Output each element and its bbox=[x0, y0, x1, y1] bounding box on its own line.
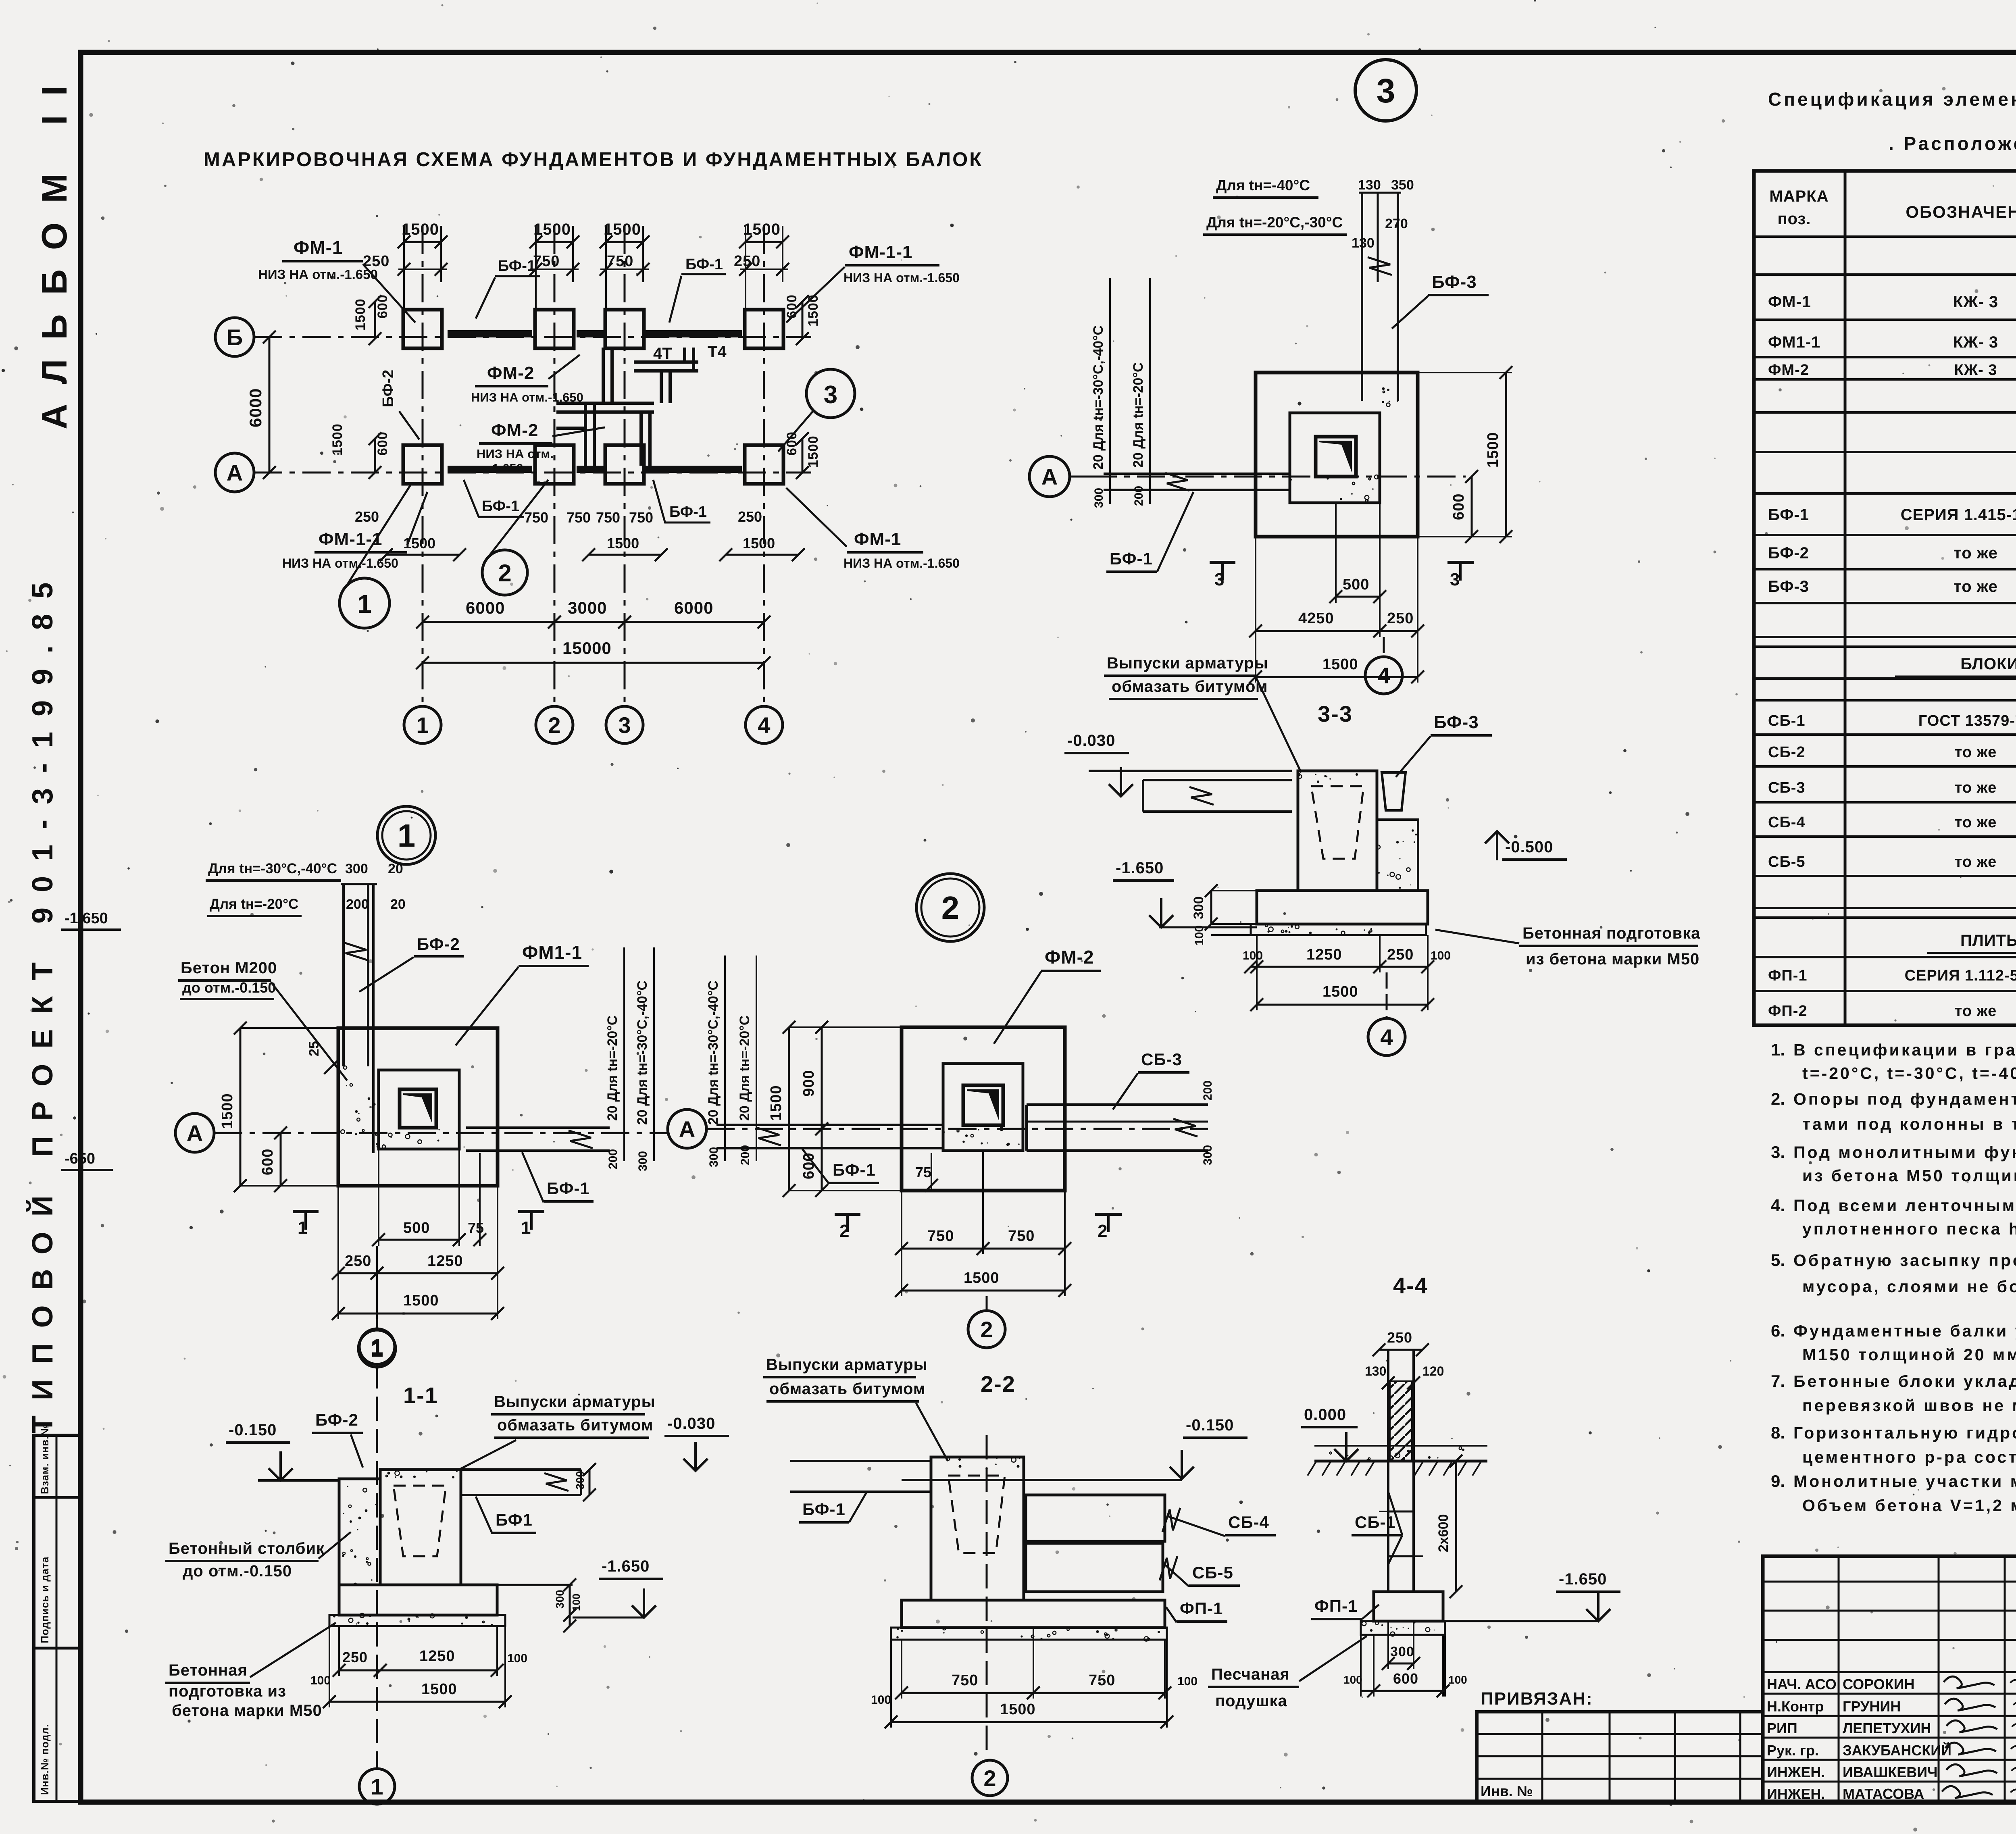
svg-text:БФ-3: БФ-3 bbox=[1434, 712, 1479, 732]
svg-text:М150 толщиной 20 мм.: М150 толщиной 20 мм. bbox=[1802, 1345, 2016, 1364]
s33 left beam bbox=[1143, 779, 1292, 781]
node3 dim 500 bbox=[1336, 596, 1380, 598]
svg-text:из бетона марки М50: из бетона марки М50 bbox=[1526, 950, 1699, 968]
svg-text:6000: 6000 bbox=[674, 598, 713, 617]
s44 bottom dims bbox=[1388, 1663, 1414, 1665]
svg-text:Подпись и дата: Подпись и дата bbox=[39, 1557, 51, 1643]
node3 dims 4250 250 bbox=[1256, 630, 1380, 632]
svg-text:1: 1 bbox=[371, 1774, 383, 1799]
svg-text:9.: 9. bbox=[1771, 1472, 1785, 1491]
s11 wall bbox=[380, 1470, 461, 1585]
svg-text:1500: 1500 bbox=[402, 221, 439, 238]
svg-text:1500: 1500 bbox=[964, 1270, 1000, 1287]
svg-text:25: 25 bbox=[306, 1041, 322, 1056]
axis circle 2 bbox=[536, 706, 573, 743]
svg-text:Бетон М200: Бетон М200 bbox=[181, 959, 277, 977]
svg-text:НИЗ НА отм.: НИЗ НА отм. bbox=[477, 447, 554, 461]
svg-text:300: 300 bbox=[1191, 896, 1206, 919]
s33 bottom dims bbox=[1251, 966, 1257, 968]
node3 dim 1500 right bbox=[1505, 373, 1507, 537]
node1 concrete speckle bbox=[355, 1110, 358, 1113]
svg-text:750: 750 bbox=[524, 509, 548, 526]
svg-text:4.: 4. bbox=[1771, 1196, 1785, 1215]
svg-text:100: 100 bbox=[871, 1693, 891, 1707]
svg-text:1500: 1500 bbox=[743, 535, 775, 552]
axis line B bbox=[254, 336, 811, 338]
s44 dim 2x600 bbox=[1455, 1461, 1457, 1592]
svg-text:2: 2 bbox=[548, 712, 560, 738]
node2 big square bbox=[902, 1027, 1065, 1191]
svg-text:ФМ-1-1: ФМ-1-1 bbox=[849, 242, 912, 262]
svg-text:БФ-1: БФ-1 bbox=[547, 1179, 590, 1198]
svg-text:БФ-1: БФ-1 bbox=[685, 256, 723, 273]
svg-text:2x600: 2x600 bbox=[1436, 1514, 1451, 1552]
svg-text:1250: 1250 bbox=[1306, 946, 1342, 963]
svg-text:20 Для tн=-20°С: 20 Для tн=-20°С bbox=[1131, 362, 1146, 468]
s33 footing bbox=[1257, 891, 1428, 924]
s22 bottom circle 2 bbox=[972, 1760, 1008, 1796]
beam BF-1 along axis A (3-4) bbox=[645, 466, 742, 473]
svg-text:БФ-1: БФ-1 bbox=[833, 1160, 876, 1179]
section mark 2T bbox=[1095, 1213, 1122, 1216]
svg-text:75: 75 bbox=[468, 1220, 484, 1236]
svg-text:НИЗ НА отм.-1.650: НИЗ НА отм.-1.650 bbox=[258, 267, 378, 282]
svg-text:. Расположенной на листе: . Расположенной на листе bbox=[1889, 133, 2016, 154]
axis line A node1 bbox=[214, 1132, 669, 1134]
svg-text:Для tн=-40°C: Для tн=-40°C bbox=[1216, 177, 1310, 194]
svg-text:ЗАКУБАНСКИЙ: ЗАКУБАНСКИЙ bbox=[1843, 1742, 1951, 1759]
svg-text:РИП: РИП bbox=[1767, 1720, 1797, 1736]
s22 left beam bbox=[790, 1460, 931, 1462]
s11 bottom circle 1 bbox=[359, 1769, 395, 1804]
svg-text:130: 130 bbox=[1358, 177, 1381, 193]
node3 dim 600 right bbox=[1471, 477, 1473, 537]
svg-text:БФ-1: БФ-1 bbox=[1768, 506, 1809, 524]
svg-text:300: 300 bbox=[554, 1590, 566, 1609]
s33 concrete column bbox=[1377, 820, 1418, 891]
svg-text:Выпуски арматуры: Выпуски арматуры bbox=[1107, 654, 1268, 672]
svg-text:ИВАШКЕВИЧ: ИВАШКЕВИЧ bbox=[1843, 1764, 1937, 1780]
svg-text:100: 100 bbox=[1243, 949, 1263, 962]
s44 wall top rect bbox=[1387, 1350, 1389, 1461]
title block small grid bbox=[1763, 1556, 2016, 1801]
svg-text:t=-20°C, t=-30°C, t=-40°C в: t=-20°C, t=-30°C, t=-40°C в килограммах. bbox=[1802, 1064, 2016, 1082]
svg-text:А: А bbox=[1041, 464, 1058, 489]
svg-text:СЕРИЯ 1.112-5 в.4: СЕРИЯ 1.112-5 в.4 bbox=[1905, 967, 2016, 984]
dim 1500 bottom axis1 bbox=[386, 554, 460, 556]
svg-text:-1.650: -1.650 bbox=[65, 910, 108, 927]
beam BF-1 along axis B (1-2) bbox=[448, 330, 532, 337]
s22 footing bbox=[902, 1600, 1165, 1628]
svg-text:то же: то же bbox=[1955, 744, 1997, 761]
svg-text:250: 250 bbox=[1387, 1329, 1412, 1346]
section mark 3T bbox=[1447, 561, 1474, 564]
svg-text:1500: 1500 bbox=[421, 1681, 457, 1698]
node2 axis line A bbox=[706, 1128, 1208, 1130]
svg-text:ФП-1: ФП-1 bbox=[1768, 967, 1808, 984]
s11 beam BF1 bbox=[461, 1468, 581, 1471]
svg-text:КЖ- 3: КЖ- 3 bbox=[1953, 333, 1998, 351]
svg-text:300: 300 bbox=[1201, 1145, 1214, 1165]
svg-text:ТИПОВОЙ ПРОЕКТ 901-3-199.85: ТИПОВОЙ ПРОЕКТ 901-3-199.85 bbox=[26, 567, 59, 1433]
svg-text:БФ-2: БФ-2 bbox=[417, 935, 460, 953]
node 1 title circle bbox=[377, 806, 435, 864]
s11 podgotovka bbox=[329, 1615, 505, 1626]
svg-text:СБ-1: СБ-1 bbox=[1768, 712, 1806, 729]
s33 dim 1500 bbox=[1257, 1004, 1428, 1006]
axis circle 3 bbox=[606, 706, 643, 743]
svg-text:ФМ-2: ФМ-2 bbox=[491, 421, 538, 440]
svg-text:250: 250 bbox=[345, 1253, 371, 1270]
svg-text:1.: 1. bbox=[1771, 1040, 1785, 1059]
svg-text:Монолитные участки между бло: Монолитные участки между блоками выполня… bbox=[1793, 1472, 2016, 1491]
svg-text:ИНЖЕН.: ИНЖЕН. bbox=[1767, 1764, 1825, 1780]
svg-text:250: 250 bbox=[355, 508, 379, 525]
dim 1500 top of axis bbox=[606, 241, 643, 243]
svg-text:БФ-1: БФ-1 bbox=[802, 1500, 846, 1519]
svg-text:20: 20 bbox=[388, 861, 403, 876]
svg-text:НАЧ. АСО: НАЧ. АСО bbox=[1767, 1676, 1837, 1692]
svg-text:цементного р-ра состава 1:2: цементного р-ра состава 1:2 , толщиной 3… bbox=[1802, 1448, 2016, 1466]
svg-text:Для tн=-30°C,-40°C: Для tн=-30°C,-40°C bbox=[208, 861, 337, 876]
svg-text:2: 2 bbox=[498, 560, 511, 587]
svg-text:100: 100 bbox=[1448, 1674, 1467, 1686]
svg-text:1500: 1500 bbox=[330, 423, 345, 456]
svg-text:уплотненного песка h=100 мм: уплотненного песка h=100 мм. bbox=[1802, 1220, 2016, 1238]
svg-text:подушка: подушка bbox=[1215, 1692, 1287, 1710]
svg-text:ИНЖЕН.: ИНЖЕН. bbox=[1767, 1786, 1825, 1802]
svg-text:1: 1 bbox=[371, 1334, 383, 1359]
svg-text:ПРИВЯЗАН:: ПРИВЯЗАН: bbox=[1481, 1689, 1593, 1709]
svg-text:7.: 7. bbox=[1771, 1372, 1785, 1391]
svg-text:2.: 2. bbox=[1771, 1089, 1785, 1108]
svg-text:подготовка из: подготовка из bbox=[169, 1682, 286, 1700]
svg-text:ФП-1: ФП-1 bbox=[1314, 1597, 1358, 1615]
svg-text:ФМ-2: ФМ-2 bbox=[1768, 362, 1809, 379]
svg-text:Объем бетона V=1,2 м³.: Объем бетона V=1,2 м³. bbox=[1802, 1496, 2016, 1515]
svg-text:3-3: 3-3 bbox=[1318, 701, 1353, 727]
node1 beam BF-1 right bbox=[466, 1126, 610, 1129]
svg-text:БФ-3: БФ-3 bbox=[1768, 578, 1809, 595]
s11 bottom dims bbox=[339, 1670, 380, 1672]
svg-text:Б: Б bbox=[227, 325, 243, 350]
svg-text:Фундаментные балки укладыва: Фундаментные балки укладывать на слой це… bbox=[1793, 1322, 2016, 1340]
foundation square B3 bbox=[605, 310, 644, 348]
axis line 3 bbox=[624, 226, 626, 706]
s33 top level line bbox=[1089, 770, 1292, 772]
svg-text:20 Для tн=-30°С,-40°С: 20 Для tн=-30°С,-40°С bbox=[1091, 325, 1106, 470]
node callout 1 bbox=[339, 578, 389, 628]
svg-text:ГОСТ 13579-78: ГОСТ 13579-78 bbox=[1918, 712, 2016, 729]
svg-text:Инв.№ подл.: Инв.№ подл. bbox=[39, 1724, 51, 1795]
svg-text:Под всеми ленточными фунда: Под всеми ленточными фундаментами из бло… bbox=[1793, 1196, 2016, 1215]
node1 bottom circle 1 bbox=[358, 1330, 396, 1367]
axis line 1 bbox=[422, 226, 424, 706]
node3 axis A bbox=[1089, 476, 1466, 478]
svg-text:тами под колонны в той же о: тами под колонны в той же опалубке. bbox=[1802, 1115, 2016, 1133]
svg-text:МАРКИРОВОЧНАЯ СХЕМА ФУНДАМЕНТО: МАРКИРОВОЧНАЯ СХЕМА ФУНДАМЕНТОВ И ФУНДАМ… bbox=[204, 149, 983, 171]
svg-text:ФП-1: ФП-1 bbox=[1180, 1599, 1223, 1618]
svg-text:бетона марки М50: бетона марки М50 bbox=[172, 1702, 322, 1720]
dim 6000 left bbox=[269, 337, 271, 473]
svg-text:ФП-2: ФП-2 bbox=[1768, 1003, 1808, 1020]
svg-text:600: 600 bbox=[1393, 1670, 1418, 1687]
axis line 2 bbox=[554, 226, 556, 706]
svg-text:СБ-4: СБ-4 bbox=[1768, 814, 1806, 831]
axis circle A node1 bbox=[175, 1114, 214, 1152]
svg-text:750: 750 bbox=[629, 509, 653, 526]
s22 axis dashed bbox=[986, 1435, 988, 1758]
svg-text:БФ-2: БФ-2 bbox=[1768, 544, 1809, 562]
section mark T2 bbox=[835, 1213, 860, 1216]
svg-text:1: 1 bbox=[416, 712, 429, 738]
axis circle A node3 bbox=[1029, 456, 1070, 497]
svg-text:1: 1 bbox=[398, 818, 416, 854]
svg-text:БЛОКИ БЕТОННЫЕ ДЛЯ СТЕН П: БЛОКИ БЕТОННЫЕ ДЛЯ СТЕН ПОДВАЛОВ bbox=[1960, 655, 2016, 673]
svg-text:300: 300 bbox=[707, 1147, 721, 1167]
axis circle 1 bbox=[404, 706, 441, 743]
svg-text:500: 500 bbox=[1343, 576, 1369, 593]
svg-text:200: 200 bbox=[1201, 1080, 1214, 1101]
svg-text:2: 2 bbox=[839, 1221, 849, 1241]
node3 column glyph bbox=[1316, 437, 1356, 477]
svg-text:-1.650: -1.650 bbox=[1116, 859, 1164, 877]
svg-text:то же: то же bbox=[1955, 854, 1997, 870]
node 3 title circle bbox=[1355, 60, 1416, 121]
svg-text:-1.650: -1.650 bbox=[488, 461, 523, 475]
node2 column glyph bbox=[963, 1085, 1003, 1125]
s44 ground line bbox=[1314, 1460, 1487, 1463]
svg-text:6.: 6. bbox=[1771, 1321, 1785, 1340]
s33 bottom circle 4 bbox=[1368, 1018, 1405, 1055]
svg-text:Спецификация элементов к м: Спецификация элементов к маркировочной с… bbox=[1768, 89, 2016, 110]
svg-text:100: 100 bbox=[1431, 949, 1451, 962]
node3 bottom circle 4 bbox=[1365, 657, 1402, 694]
node2 dims left bbox=[788, 1027, 790, 1191]
svg-text:НИЗ НА отм.-1.650: НИЗ НА отм.-1.650 bbox=[471, 390, 583, 404]
svg-text:Инв. №: Инв. № bbox=[1481, 1783, 1533, 1799]
node3 dim 1500 bottom bbox=[1256, 676, 1418, 678]
node1 dim 1500 bottom bbox=[338, 1313, 498, 1315]
svg-text:3: 3 bbox=[618, 712, 631, 738]
dim 1500 top of axis bbox=[404, 241, 441, 243]
s11 dim 300 right of beam bbox=[589, 1470, 591, 1495]
svg-text:НИЗ НА отм.-1.650: НИЗ НА отм.-1.650 bbox=[843, 556, 960, 570]
svg-text:БФ-1: БФ-1 bbox=[669, 504, 707, 520]
svg-text:300: 300 bbox=[636, 1151, 650, 1171]
svg-text:2-2: 2-2 bbox=[981, 1371, 1016, 1397]
svg-text:1500: 1500 bbox=[353, 298, 368, 331]
svg-text:ПЛИТЫ ДЛЯ ЛЕНТОЧНЫХ ФУНДАМЕ: ПЛИТЫ ДЛЯ ЛЕНТОЧНЫХ ФУНДАМЕНТОВ bbox=[1960, 932, 2016, 949]
svg-text:ФМ1-1: ФМ1-1 bbox=[522, 942, 582, 963]
svg-text:БФ-1: БФ-1 bbox=[482, 498, 519, 515]
svg-text:ФМ-2: ФМ-2 bbox=[1045, 947, 1094, 968]
svg-text:Бетонная: Бетонная bbox=[169, 1661, 248, 1679]
svg-text:СБ-3: СБ-3 bbox=[1768, 779, 1806, 796]
s33 dashed trapezoid bbox=[1311, 786, 1364, 859]
svg-text:3: 3 bbox=[1450, 570, 1460, 589]
svg-text:1500: 1500 bbox=[219, 1093, 236, 1129]
dim row 6000/3000/6000 bbox=[423, 621, 554, 623]
foundation square B2 bbox=[535, 310, 574, 348]
node2 beam BF-1 left bbox=[716, 1124, 943, 1126]
svg-text:Песчаная: Песчаная bbox=[1211, 1665, 1290, 1683]
svg-text:4250: 4250 bbox=[1298, 610, 1334, 627]
node2 SB-3 wall right bbox=[1027, 1103, 1208, 1106]
svg-text:100: 100 bbox=[1343, 1674, 1362, 1686]
svg-text:20 Для tн=-30°С,-40°С: 20 Для tн=-30°С,-40°С bbox=[706, 980, 721, 1125]
svg-text:250: 250 bbox=[734, 253, 760, 270]
s22 blocks SB-4 SB-5 bbox=[1026, 1495, 1165, 1541]
svg-text:250: 250 bbox=[1387, 946, 1414, 963]
svg-text:100: 100 bbox=[570, 1594, 582, 1611]
svg-text:БФ-2: БФ-2 bbox=[380, 370, 397, 407]
svg-text:Т4: Т4 bbox=[708, 343, 727, 361]
svg-text:2: 2 bbox=[941, 890, 960, 926]
svg-text:СБ-3: СБ-3 bbox=[1141, 1050, 1182, 1069]
beam BF-1 along axis A (1-2) bbox=[448, 466, 532, 473]
svg-text:1500: 1500 bbox=[806, 435, 821, 468]
svg-text:КЖ- 3: КЖ- 3 bbox=[1953, 293, 1998, 311]
svg-text:5.: 5. bbox=[1771, 1251, 1785, 1270]
svg-text:2: 2 bbox=[980, 1317, 993, 1342]
svg-text:130: 130 bbox=[1365, 1364, 1386, 1378]
s22 bottom dims bbox=[902, 1692, 1033, 1694]
svg-text:-0.030: -0.030 bbox=[1067, 732, 1115, 749]
svg-text:20: 20 bbox=[390, 897, 406, 912]
node1 column strip (BF-2 plan) bbox=[342, 884, 345, 1066]
svg-text:750: 750 bbox=[1089, 1672, 1115, 1689]
node3 big square bbox=[1256, 373, 1418, 537]
svg-text:1500: 1500 bbox=[1000, 1701, 1036, 1718]
axis line A bbox=[254, 472, 811, 474]
svg-text:100: 100 bbox=[1177, 1675, 1198, 1688]
svg-text:ФМ-1: ФМ-1 bbox=[1768, 293, 1811, 311]
svg-text:3: 3 bbox=[824, 381, 837, 409]
svg-text:250: 250 bbox=[1387, 610, 1414, 627]
svg-text:750: 750 bbox=[607, 253, 633, 270]
svg-text:600: 600 bbox=[800, 1153, 817, 1179]
svg-text:750: 750 bbox=[533, 253, 560, 270]
svg-text:300: 300 bbox=[345, 861, 368, 876]
node1 dim 1500 left bbox=[240, 1028, 242, 1186]
node3 column strip BF-3 bbox=[1361, 193, 1363, 401]
svg-text:75: 75 bbox=[915, 1164, 931, 1180]
svg-text:-0.500: -0.500 bbox=[1505, 838, 1553, 856]
svg-text:СОРОКИН: СОРОКИН bbox=[1843, 1676, 1915, 1692]
svg-text:6000: 6000 bbox=[466, 598, 505, 617]
svg-text:750: 750 bbox=[596, 509, 620, 526]
beam along axis A (2-3) bbox=[577, 466, 605, 473]
svg-text:250: 250 bbox=[738, 508, 762, 525]
svg-text:4-4: 4-4 bbox=[1393, 1273, 1428, 1298]
scan noise specks bbox=[845, 275, 848, 278]
node callout 2 bbox=[482, 550, 527, 595]
svg-text:БФ-1: БФ-1 bbox=[1110, 549, 1153, 568]
spec table grid bbox=[1754, 171, 2016, 1025]
node1 dim 600 left bbox=[280, 1133, 282, 1186]
svg-text:3: 3 bbox=[1377, 72, 1395, 110]
svg-text:200: 200 bbox=[606, 1149, 620, 1169]
node1 inner square bbox=[379, 1070, 459, 1149]
svg-text:100: 100 bbox=[507, 1652, 527, 1665]
s22 wall block bbox=[931, 1457, 1024, 1600]
node2 concrete speckle bbox=[962, 1141, 965, 1143]
svg-text:100: 100 bbox=[310, 1674, 331, 1687]
svg-text:БФ1: БФ1 bbox=[496, 1510, 533, 1529]
svg-text:4: 4 bbox=[758, 712, 770, 738]
s11 top line bbox=[258, 1479, 339, 1482]
svg-text:20 Для tн=-20°С: 20 Для tн=-20°С bbox=[737, 1016, 752, 1121]
svg-text:200: 200 bbox=[1132, 486, 1145, 506]
svg-text:4Т: 4Т bbox=[653, 345, 672, 362]
svg-text:-0.150: -0.150 bbox=[229, 1421, 277, 1439]
svg-text:1500: 1500 bbox=[768, 1085, 785, 1121]
svg-text:750: 750 bbox=[566, 509, 591, 526]
svg-text:1250: 1250 bbox=[427, 1253, 463, 1270]
svg-text:то же: то же bbox=[1955, 779, 1997, 796]
svg-text:Рук. гр.: Рук. гр. bbox=[1767, 1742, 1819, 1759]
svg-text:БФ-3: БФ-3 bbox=[1432, 272, 1477, 292]
svg-text:1250: 1250 bbox=[419, 1648, 455, 1665]
beam BF-1 along axis B (3-4) bbox=[645, 330, 742, 337]
svg-text:100: 100 bbox=[1193, 925, 1206, 945]
s22 podgotovka bbox=[891, 1628, 1167, 1640]
s22 top line bbox=[902, 1479, 1182, 1481]
beam along axis B (2-3) bbox=[577, 330, 605, 337]
svg-text:СБ-4: СБ-4 bbox=[1228, 1513, 1269, 1532]
svg-text:НИЗ НА отм.-1.650: НИЗ НА отм.-1.650 bbox=[843, 271, 960, 285]
svg-text:СБ-2: СБ-2 bbox=[1768, 744, 1806, 761]
svg-text:Бетонная подготовка: Бетонная подготовка bbox=[1522, 924, 1700, 942]
svg-text:ЛЕПЕТУХИН: ЛЕПЕТУХИН bbox=[1843, 1720, 1931, 1736]
foundation square B1 bbox=[403, 310, 442, 348]
node1 dim 250 1250 bbox=[338, 1272, 377, 1274]
node3 inner square bbox=[1290, 413, 1380, 503]
svg-text:1500: 1500 bbox=[607, 535, 639, 552]
svg-text:БФ-2: БФ-2 bbox=[315, 1410, 358, 1429]
svg-text:В спецификации в графе „примеч: В спецификации в графе „примечание“ дана… bbox=[1793, 1041, 2016, 1059]
svg-text:200: 200 bbox=[739, 1145, 752, 1165]
svg-text:Для tн=-20°C,-30°C: Для tн=-20°C,-30°C bbox=[1206, 214, 1343, 231]
svg-text:1: 1 bbox=[521, 1218, 531, 1238]
svg-text:Опоры под фундаментные балки: Опоры под фундаментные балки бетонироват… bbox=[1793, 1090, 2016, 1108]
svg-text:ФМ-1: ФМ-1 bbox=[294, 237, 343, 258]
svg-text:1: 1 bbox=[298, 1218, 307, 1238]
node3 beam BF-1 bbox=[1104, 473, 1290, 475]
svg-text:3000: 3000 bbox=[568, 598, 607, 617]
axis circle A (plan) bbox=[215, 453, 254, 492]
svg-text:1500: 1500 bbox=[1322, 656, 1358, 673]
dim 1500 top of axis bbox=[536, 241, 573, 243]
svg-text:1500: 1500 bbox=[604, 221, 641, 238]
s33 BF-3 end trapezoid bbox=[1382, 772, 1406, 810]
svg-text:обмазать битумом: обмазать битумом bbox=[1112, 678, 1268, 695]
s22 dashed trapezoid bbox=[948, 1476, 1005, 1553]
svg-text:-0.030: -0.030 bbox=[667, 1415, 715, 1432]
svg-text:то же: то же bbox=[1954, 578, 1998, 595]
svg-text:2: 2 bbox=[1098, 1221, 1107, 1241]
section mark T1 bbox=[293, 1210, 319, 1213]
svg-text:120: 120 bbox=[1422, 1364, 1444, 1378]
svg-text:300: 300 bbox=[1390, 1644, 1414, 1659]
svg-text:1500: 1500 bbox=[533, 221, 571, 238]
svg-text:перевязкой швов не мене: перевязкой швов не мене 300 мм. bbox=[1802, 1396, 2016, 1415]
svg-text:300: 300 bbox=[1092, 488, 1106, 508]
svg-text:то же: то же bbox=[1955, 1003, 1997, 1020]
svg-text:обмазать битумом: обмазать битумом bbox=[497, 1416, 653, 1434]
svg-text:СБ-1: СБ-1 bbox=[1355, 1513, 1396, 1532]
